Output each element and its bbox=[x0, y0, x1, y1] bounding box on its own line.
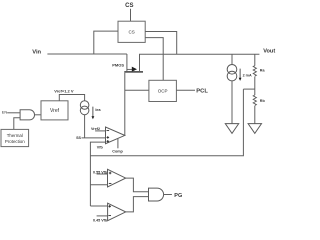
svg-text:OCP: OCP bbox=[158, 88, 168, 93]
wire enable gate to Vref block bbox=[35, 114, 41, 116]
wire FB node horizontal bbox=[243, 88, 254, 90]
resistor Rb bbox=[253, 95, 256, 105]
block Thermal Protection bbox=[1, 129, 29, 146]
svg-text:Vref=1.2 V: Vref=1.2 V bbox=[54, 89, 74, 94]
wire Vref2 stub bbox=[95, 130, 105, 132]
svg-text:Thermal: Thermal bbox=[7, 133, 23, 138]
current source Iea bbox=[80, 101, 89, 115]
svg-text:CS: CS bbox=[125, 3, 133, 9]
svg-text:Vref: Vref bbox=[50, 108, 60, 114]
wire Vout rail bbox=[139, 53, 259, 55]
svg-text:Vfb: Vfb bbox=[97, 146, 104, 150]
wire CS block left to Vin rail bbox=[94, 31, 118, 54]
op-amp error amplifier bbox=[106, 127, 125, 144]
wire Vfb node to divider bbox=[90, 89, 243, 156]
svg-text:0.45 Vfb: 0.45 Vfb bbox=[93, 219, 108, 223]
wire OCP to PCL pin bbox=[176, 89, 195, 91]
wire Vfb to lower comparator bbox=[90, 205, 107, 207]
wire PMOS source bbox=[126, 54, 128, 71]
ground left bbox=[225, 124, 238, 134]
wire error amp Vfb input bbox=[90, 142, 105, 206]
wire Iea to SS node bbox=[84, 115, 86, 138]
wire PMOS drain bbox=[139, 54, 141, 71]
svg-text:Vout: Vout bbox=[263, 49, 275, 55]
wire CS pin to CS block bbox=[130, 9, 132, 21]
comparator upper PG bbox=[108, 169, 126, 187]
wire thermal protection to enable gate bbox=[14, 118, 20, 130]
svg-text:Rb: Rb bbox=[260, 99, 266, 103]
label Comp bbox=[112, 139, 123, 154]
wire Ra to FB node bbox=[254, 77, 256, 90]
wire 2mA source to ground bbox=[231, 81, 233, 124]
wire SS to error amp input bbox=[82, 137, 106, 139]
wire 0.55 Vfb stub bbox=[97, 173, 108, 175]
block OCP bbox=[149, 80, 177, 101]
wire Vref block to Iea current source bbox=[59, 95, 84, 101]
svg-text:2 mA: 2 mA bbox=[243, 73, 252, 77]
block CS bbox=[118, 21, 145, 42]
wire Rb to ground bbox=[254, 106, 256, 124]
wire Vfb to upper comparator bbox=[90, 184, 107, 186]
wire Vout to 2mA current source bbox=[231, 54, 233, 64]
wire Vout to resistor Ra bbox=[254, 54, 256, 65]
svg-text:PMOS: PMOS bbox=[112, 62, 124, 67]
wire AND gate to PG pin bbox=[164, 194, 172, 196]
wire Vin rail bbox=[47, 53, 127, 55]
wire EN to enable gate bbox=[7, 112, 20, 114]
svg-text:EN: EN bbox=[2, 110, 8, 115]
svg-text:CS: CS bbox=[128, 29, 134, 34]
ground right bbox=[248, 124, 261, 134]
svg-text:Ra: Ra bbox=[260, 69, 266, 73]
gate AND PG bbox=[149, 188, 164, 201]
comparator lower PG bbox=[108, 203, 126, 221]
current source 2 mA bbox=[227, 65, 237, 81]
wire lower comparator to AND gate bbox=[126, 197, 149, 212]
wire 0.45 Vfb stub bbox=[97, 215, 108, 217]
wire upper comparator to AND gate bbox=[126, 178, 149, 192]
wire FB node to Rb bbox=[254, 89, 256, 95]
svg-text:SS: SS bbox=[76, 136, 81, 140]
svg-text:PCL: PCL bbox=[196, 88, 208, 94]
svg-text:Iea: Iea bbox=[95, 108, 101, 112]
transistor PMOS bbox=[124, 67, 143, 72]
gate U1 enable AND bbox=[20, 110, 34, 120]
svg-text:Vin: Vin bbox=[32, 50, 41, 56]
svg-text:Protection: Protection bbox=[5, 139, 25, 144]
wire CS block right to Vout rail bbox=[145, 32, 177, 55]
label 2 mA arrow bbox=[239, 69, 252, 81]
wire gate node to OCP input bbox=[125, 89, 149, 91]
wire CS block to OCP block bbox=[145, 38, 163, 81]
svg-text:Comp: Comp bbox=[112, 149, 123, 153]
wire PMOS gate to error amp output bbox=[124, 73, 126, 136]
block Vref bbox=[41, 101, 68, 120]
resistor Ra bbox=[253, 66, 256, 76]
svg-text:PG: PG bbox=[174, 193, 182, 199]
label Iea arrow bbox=[92, 107, 102, 120]
